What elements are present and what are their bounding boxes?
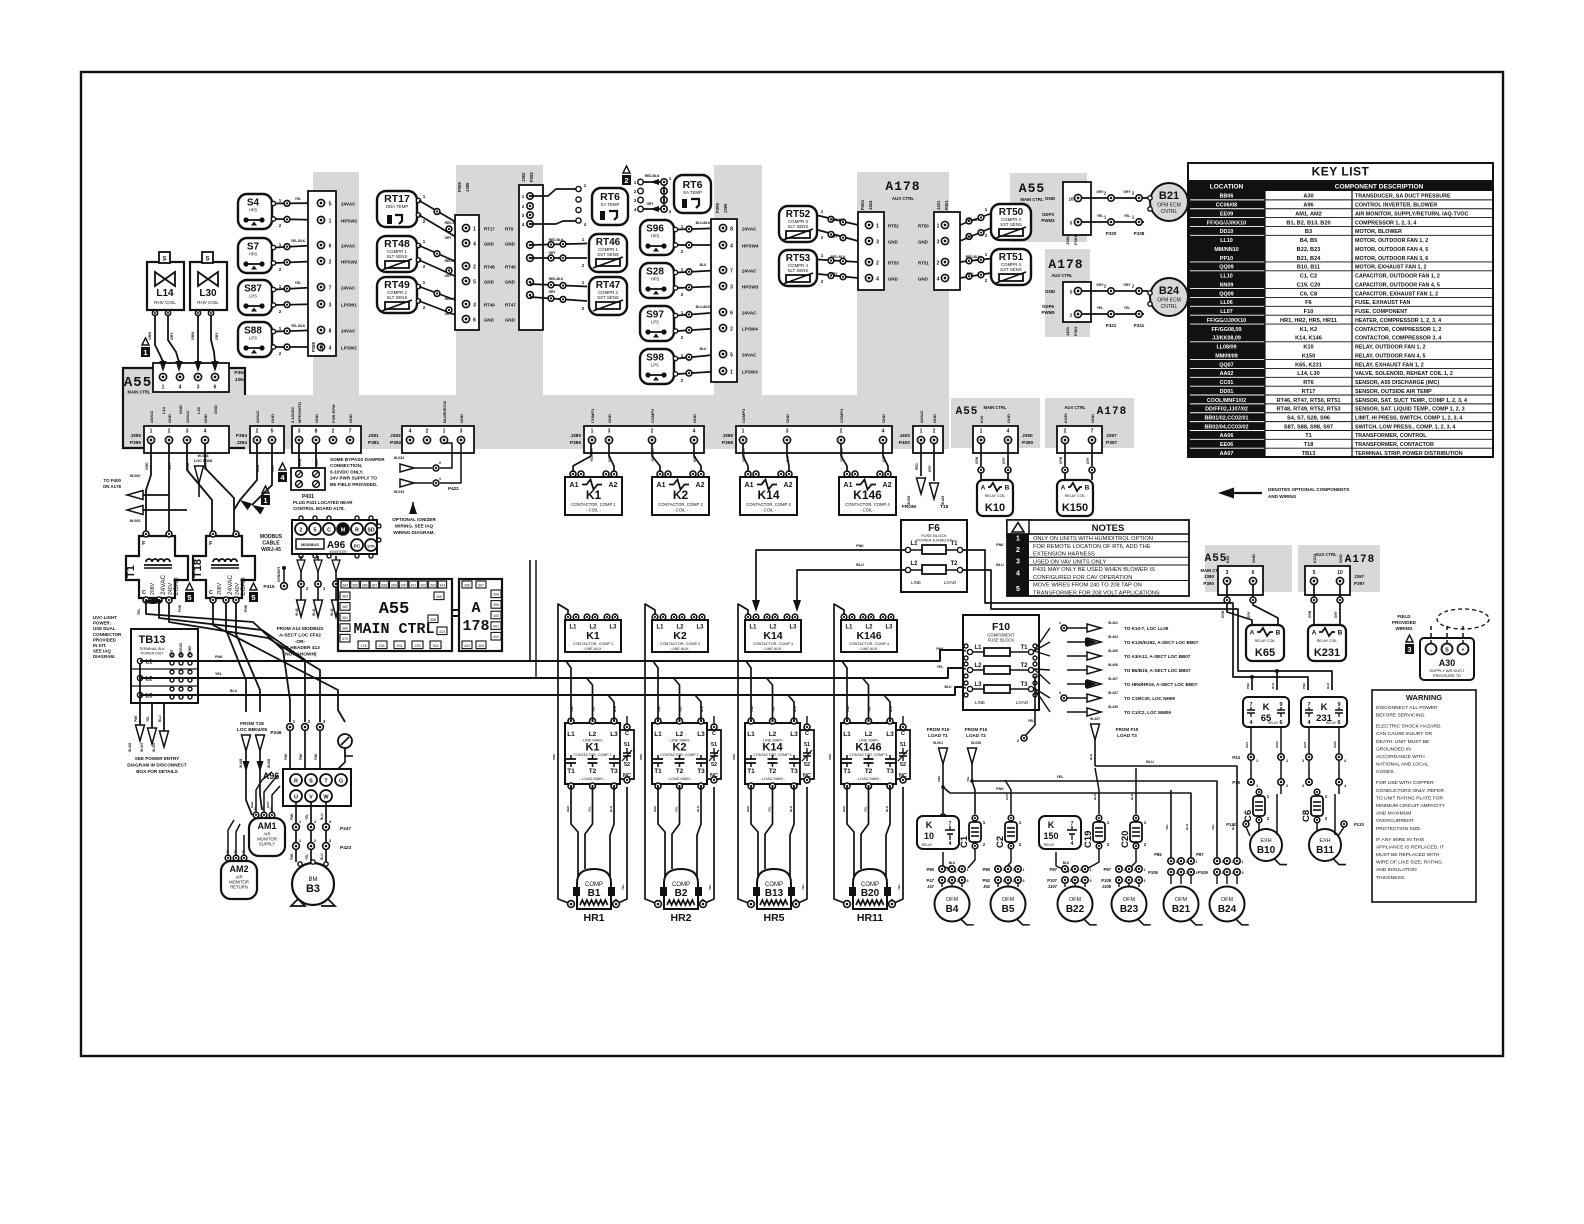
svg-text:(NOT SHOWN): (NOT SHOWN) xyxy=(283,652,316,658)
svg-text:RT46, RT47, RT50, RT51: RT46, RT47, RT50, RT51 xyxy=(1276,398,1340,404)
svg-text:K2: K2 xyxy=(672,742,686,754)
svg-text:PNK: PNK xyxy=(570,705,574,712)
svg-text:A2: A2 xyxy=(883,482,892,489)
svg-text:6: 6 xyxy=(214,385,217,391)
wire xyxy=(573,443,591,472)
svg-text:GND: GND xyxy=(1045,289,1056,294)
svg-text:A96: A96 xyxy=(1303,203,1313,209)
svg-text:383: 383 xyxy=(342,595,348,599)
svg-text:ELECTRIC SHOCK HAZARD.: ELECTRIC SHOCK HAZARD. xyxy=(1376,724,1442,730)
harness band V3 xyxy=(714,165,762,395)
svg-text:C6, C8: C6, C8 xyxy=(1300,291,1317,297)
svg-text:RT51: RT51 xyxy=(918,261,929,266)
svg-text:K: K xyxy=(926,820,933,830)
svg-text:240V: 240V xyxy=(168,582,174,595)
svg-text:W-407: W-407 xyxy=(1108,677,1118,681)
svg-text:M: M xyxy=(341,528,346,534)
svg-text:4: 4 xyxy=(409,429,412,435)
svg-text:AM1, AM2: AM1, AM2 xyxy=(1295,211,1322,217)
svg-text:RELAY: RELAY xyxy=(1044,843,1056,847)
svg-text:SUPPLY: SUPPLY xyxy=(259,842,275,847)
monitor AM2 xyxy=(221,861,257,899)
svg-text:3: 3 xyxy=(186,429,189,435)
svg-text:PNK: PNK xyxy=(732,753,736,760)
svg-text:24VAC: 24VAC xyxy=(341,202,356,207)
svg-text:K14: K14 xyxy=(757,488,779,502)
control board A55 main ctrl xyxy=(338,579,452,651)
svg-text:5: 5 xyxy=(187,593,191,602)
svg-text:235: 235 xyxy=(415,644,421,648)
svg-text:HPSW3: HPSW3 xyxy=(742,285,759,290)
contactor K14 line aux xyxy=(745,620,801,652)
fuse block F10 xyxy=(963,615,1039,710)
wire xyxy=(419,287,466,305)
svg-text:MOTOR, BLOWER: MOTOR, BLOWER xyxy=(1355,229,1402,235)
svg-text:LOAD: LOAD xyxy=(944,580,957,585)
svg-text:PNK: PNK xyxy=(299,753,303,760)
svg-text:GND: GND xyxy=(178,405,183,414)
svg-text:TRANSDUCER, SA DUCT PRESSURE: TRANSDUCER, SA DUCT PRESSURE xyxy=(1355,194,1451,200)
svg-text:L3: L3 xyxy=(696,625,704,631)
svg-text:396: 396 xyxy=(464,583,470,587)
aux side verticals xyxy=(796,787,807,904)
svg-text:5: 5 xyxy=(473,280,476,286)
svg-text:T3: T3 xyxy=(790,768,798,775)
gray block A55 B21 xyxy=(1010,173,1087,242)
svg-text:TRANSFORMER, CONTROL: TRANSFORMER, CONTROL xyxy=(1355,433,1427,439)
svg-text:A1: A1 xyxy=(844,482,853,489)
svg-text:WARNING: WARNING xyxy=(1406,693,1442,702)
wire with arrows RT6 remote xyxy=(643,181,660,183)
svg-text:DD01: DD01 xyxy=(1220,389,1234,395)
svg-text:PC: PC xyxy=(354,544,361,549)
svg-text:W-41: W-41 xyxy=(312,608,316,616)
svg-text:1: 1 xyxy=(591,429,594,435)
svg-text:T2: T2 xyxy=(676,768,684,775)
valve L30 xyxy=(190,262,227,310)
svg-text:A55: A55 xyxy=(956,406,979,418)
svg-text:P422: P422 xyxy=(448,486,459,491)
svg-text:HPSW2: HPSW2 xyxy=(341,260,358,265)
svg-text:POWER EXHAUST: POWER EXHAUST xyxy=(916,538,952,543)
contactor main K146 xyxy=(841,723,896,784)
svg-text:YEL: YEL xyxy=(801,884,805,890)
svg-text:208V: 208V xyxy=(217,582,223,595)
svg-text:- LOAD MAIN -: - LOAD MAIN - xyxy=(856,777,882,781)
svg-text:52: 52 xyxy=(804,762,810,768)
svg-text:CONTACTOR, COMP 1: CONTACTOR, COMP 1 xyxy=(573,753,611,757)
svg-text:YEL: YEL xyxy=(966,776,970,782)
svg-text:RED-BLK: RED-BLK xyxy=(966,218,981,222)
svg-text:2: 2 xyxy=(730,327,733,333)
wire xyxy=(678,228,724,230)
svg-text:TO HR6/HR16, A-SECT LOC BB07: TO HR6/HR16, A-SECT LOC BB07 xyxy=(1124,682,1198,687)
svg-text:OPTIONAL IONIZER: OPTIONAL IONIZER xyxy=(392,517,436,522)
svg-text:CC01: CC01 xyxy=(1220,380,1234,386)
svg-text:P381: P381 xyxy=(1073,235,1078,245)
svg-text:24VAC: 24VAC xyxy=(227,575,234,595)
svg-text:- LINE AUX -: - LINE AUX - xyxy=(762,647,784,651)
svg-text:GND: GND xyxy=(918,277,928,282)
svg-text:OFM ECM: OFM ECM xyxy=(1157,203,1181,209)
wire arrows into P394 xyxy=(162,360,164,368)
svg-text:4: 4 xyxy=(876,277,879,283)
contactor main K1 xyxy=(565,723,620,784)
svg-text:QQ09: QQ09 xyxy=(1219,291,1233,297)
svg-text:BLU: BLU xyxy=(1089,754,1093,760)
svg-text:P321: P321 xyxy=(1106,323,1117,328)
svg-text:THICKNESS.: THICKNESS. xyxy=(1376,875,1405,881)
svg-text:LINE: LINE xyxy=(911,580,921,585)
svg-text:PLUG P431 LOCATED NEAR: PLUG P431 LOCATED NEAR xyxy=(293,500,353,505)
svg-text:FF/GG/JJ/KK10: FF/GG/JJ/KK10 xyxy=(1207,220,1246,226)
svg-text:401: 401 xyxy=(493,624,499,628)
svg-text:K10: K10 xyxy=(1303,345,1313,351)
svg-text:PNK: PNK xyxy=(657,705,661,712)
svg-text:A55 HEADER 413: A55 HEADER 413 xyxy=(280,645,320,651)
svg-text:3: 3 xyxy=(1144,879,1146,883)
svg-text:GRY: GRY xyxy=(1002,456,1006,464)
svg-text:B21, B24: B21, B24 xyxy=(1297,256,1322,262)
svg-text:YEL-BLK: YEL-BLK xyxy=(742,447,746,462)
svg-text:J389: J389 xyxy=(570,433,581,439)
svg-text:RHV COIL: RHV COIL xyxy=(154,300,176,305)
svg-text:J401: J401 xyxy=(936,200,941,210)
svg-text:AA06: AA06 xyxy=(1220,433,1234,439)
svg-text:A2: A2 xyxy=(784,482,793,489)
svg-text:WIRING DIAGRAM.: WIRING DIAGRAM. xyxy=(393,530,435,535)
svg-text:RETURN: RETURN xyxy=(230,885,247,890)
svg-text:GND: GND xyxy=(505,280,515,285)
notes table xyxy=(1007,520,1189,596)
svg-text:LPSW1: LPSW1 xyxy=(341,303,357,308)
svg-text:BLU: BLU xyxy=(696,806,700,812)
svg-text:B21: B21 xyxy=(1159,190,1179,202)
svg-text:GRY: GRY xyxy=(1005,794,1009,800)
TB13 feed triangles xyxy=(139,664,141,725)
svg-text:SEE POWER ENTRY: SEE POWER ENTRY xyxy=(135,756,180,761)
svg-text:3: 3 xyxy=(1023,879,1025,883)
svg-text:CONTROL BOARD A178.: CONTROL BOARD A178. xyxy=(293,506,345,511)
svg-text:MODBUS: MODBUS xyxy=(301,542,319,547)
wire L3 bus xyxy=(140,687,962,695)
svg-text:51: 51 xyxy=(624,742,630,748)
pressure switch S28 xyxy=(640,263,674,298)
svg-text:2: 2 xyxy=(473,265,476,271)
svg-text:W-404: W-404 xyxy=(1108,635,1118,639)
svg-text:QQ07: QQ07 xyxy=(1219,362,1233,368)
svg-text:OFM: OFM xyxy=(1123,897,1136,903)
svg-text:EXH: EXH xyxy=(1260,838,1271,844)
svg-text:404: 404 xyxy=(478,644,484,648)
svg-text:LL10: LL10 xyxy=(1220,238,1233,244)
svg-text:MODBUS: MODBUS xyxy=(179,643,183,657)
svg-text:BLU: BLU xyxy=(230,689,238,693)
svg-text:P394: P394 xyxy=(234,370,246,376)
svg-text:A55: A55 xyxy=(1019,181,1045,196)
svg-text:GND: GND xyxy=(1251,554,1256,563)
connector J399/P399 xyxy=(711,219,737,382)
svg-text:B11: B11 xyxy=(1316,845,1334,856)
svg-text:C19, C20: C19, C20 xyxy=(1297,282,1321,288)
svg-text:J382: J382 xyxy=(521,172,526,182)
svg-text:391: 391 xyxy=(410,583,416,587)
svg-text:P87: P87 xyxy=(1050,867,1058,872)
svg-text:B2: B2 xyxy=(675,888,688,899)
svg-text:SLT SENS: SLT SENS xyxy=(387,295,408,300)
svg-text:OFM: OFM xyxy=(1175,897,1188,903)
svg-text:RELAY COIL: RELAY COIL xyxy=(1065,494,1086,498)
svg-text:1: 1 xyxy=(1196,860,1198,864)
svg-text:GND: GND xyxy=(505,242,515,247)
svg-text:3: 3 xyxy=(1407,645,1411,654)
svg-text:CAPACITOR, OUTDOOR FAN 4, 5: CAPACITOR, OUTDOOR FAN 4, 5 xyxy=(1355,282,1440,288)
svg-text:TB13: TB13 xyxy=(139,634,166,646)
svg-text:RT6: RT6 xyxy=(1303,380,1314,386)
svg-text:8: 8 xyxy=(315,429,318,435)
contactor K146 line aux xyxy=(841,620,897,652)
svg-text:RED: RED xyxy=(256,464,260,472)
harness band V2 xyxy=(456,165,543,395)
svg-text:L1: L1 xyxy=(656,625,664,631)
svg-text:CONTACTOR, COMP 1: CONTACTOR, COMP 1 xyxy=(571,502,616,507)
svg-text:A55: A55 xyxy=(379,600,410,619)
svg-text:PNK: PNK xyxy=(996,787,1004,791)
svg-text:2: 2 xyxy=(329,260,332,266)
svg-text:GND: GND xyxy=(484,318,494,323)
svg-text:J390: J390 xyxy=(1204,574,1215,579)
svg-text:P401: P401 xyxy=(944,200,949,210)
svg-text:GRN: GRN xyxy=(191,332,195,340)
relay K150 coil xyxy=(1057,480,1093,516)
svg-text:DD10: DD10 xyxy=(1220,229,1234,235)
svg-text:BLU: BLU xyxy=(700,706,704,712)
svg-text:4: 4 xyxy=(693,429,696,435)
svg-text:B24: B24 xyxy=(1218,904,1237,915)
svg-text:GRY: GRY xyxy=(1123,190,1131,194)
svg-text:RELAY COIL: RELAY COIL xyxy=(985,494,1006,498)
pressure switch S87 xyxy=(238,280,272,315)
svg-text:394: 394 xyxy=(439,583,445,587)
svg-text:RT17: RT17 xyxy=(1302,389,1316,395)
svg-text:AA02: AA02 xyxy=(1220,371,1234,377)
svg-text:B4: B4 xyxy=(946,904,959,915)
svg-text:T1: T1 xyxy=(125,565,137,578)
svg-text:GRN: GRN xyxy=(975,456,979,464)
svg-text:DEATH. UNIT MUST BE: DEATH. UNIT MUST BE xyxy=(1376,739,1430,745)
wire xyxy=(743,443,748,472)
svg-text:BLU: BLU xyxy=(700,347,707,351)
svg-text:YEL: YEL xyxy=(1124,214,1131,218)
chassis ground xyxy=(338,734,352,748)
svg-text:GND: GND xyxy=(881,414,886,423)
pressure switch S97 xyxy=(640,306,674,341)
svg-text:COMP3: COMP3 xyxy=(741,408,746,423)
svg-text:RED-BLK: RED-BLK xyxy=(831,218,846,222)
svg-text:W-032: W-032 xyxy=(394,456,405,460)
svg-text:IN KIT.: IN KIT. xyxy=(93,643,106,648)
wire F6 line side xyxy=(756,550,905,608)
svg-text:DENOTES OPTIONAL COMPONENTS: DENOTES OPTIONAL COMPONENTS xyxy=(1268,487,1349,492)
svg-text:TERMINAL STRIP, POWER DISTRIBU: TERMINAL STRIP, POWER DISTRIBUTION xyxy=(1355,451,1463,457)
relay contacts K65 xyxy=(1243,697,1289,727)
svg-text:LOC BB04/05: LOC BB04/05 xyxy=(237,727,268,733)
svg-text:R: R xyxy=(294,779,298,785)
svg-text:TO UNIT RATING PLATE FOR: TO UNIT RATING PLATE FOR xyxy=(1376,795,1443,801)
svg-text:BLU: BLU xyxy=(158,715,162,722)
svg-text:CONTACTOR, COMP 2: CONTACTOR, COMP 2 xyxy=(660,642,700,646)
relay K231 coil xyxy=(1308,625,1346,661)
svg-text:RED-BLK: RED-BLK xyxy=(831,255,846,259)
wire J395-1 to T1 xyxy=(146,443,151,533)
motor B4 OFM xyxy=(935,887,970,922)
svg-text:1: 1 xyxy=(1023,868,1025,872)
svg-text:FF/GG08,09: FF/GG08,09 xyxy=(1212,327,1242,333)
wire T2 tap down xyxy=(1026,676,1035,735)
svg-text:MM/NN10: MM/NN10 xyxy=(1214,247,1238,253)
svg-text:T2: T2 xyxy=(950,561,958,567)
sensor RT49 xyxy=(377,277,421,313)
wire xyxy=(276,287,322,290)
svg-text:CONNECTOR: CONNECTOR xyxy=(93,632,122,637)
svg-text:RELAY COIL: RELAY COIL xyxy=(1255,639,1276,643)
svg-text:J394: J394 xyxy=(236,440,247,446)
svg-text:TO C19/C20, LOC NH09: TO C19/C20, LOC NH09 xyxy=(1124,696,1175,701)
svg-text:5: 5 xyxy=(314,528,317,534)
wire xyxy=(678,354,724,359)
svg-text:L1: L1 xyxy=(974,645,982,651)
svg-text:J394: J394 xyxy=(235,377,246,383)
svg-text:HPS: HPS xyxy=(651,234,660,239)
svg-text:YEL: YEL xyxy=(215,672,223,676)
svg-text:- LINE AUX -: - LINE AUX - xyxy=(669,647,691,651)
svg-text:GRY: GRY xyxy=(786,454,790,462)
motor B10 EXH xyxy=(1250,829,1282,861)
wires K65/K231 contacts to P24/P18 xyxy=(1250,728,1252,753)
wire J381 to P431 xyxy=(298,443,300,468)
svg-text:K14: K14 xyxy=(762,742,783,754)
svg-text:MAIN CTRL: MAIN CTRL xyxy=(983,405,1006,410)
svg-text:P320: P320 xyxy=(1106,231,1117,236)
svg-text:HR1, HR2, HR5, HR11: HR1, HR2, HR5, HR11 xyxy=(1280,318,1337,324)
svg-text:1: 1 xyxy=(522,194,525,199)
svg-text:PROVIDED: PROVIDED xyxy=(1392,620,1417,625)
svg-text:WIRING. SEE IAQ: WIRING. SEE IAQ xyxy=(395,524,434,529)
svg-text:- COIL -: - COIL - xyxy=(673,508,688,513)
svg-text:- LOAD MAIN -: - LOAD MAIN - xyxy=(667,777,693,781)
svg-text:BOX FOR DETAILS: BOX FOR DETAILS xyxy=(136,769,178,774)
svg-text:BLU: BLU xyxy=(700,263,707,267)
wires between grids and motors xyxy=(1170,875,1172,884)
svg-text:393: 393 xyxy=(430,583,436,587)
svg-text:4: 4 xyxy=(937,277,940,283)
wire xyxy=(419,201,466,229)
svg-text:L3: L3 xyxy=(885,625,893,631)
wire L2 bus xyxy=(140,668,962,678)
svg-text:GRY: GRY xyxy=(444,312,452,316)
svg-text:FUSE BLOCK: FUSE BLOCK xyxy=(988,638,1015,643)
wire J395-4 xyxy=(205,443,234,533)
svg-text:V: V xyxy=(309,795,313,801)
svg-text:FOR USE WITH COPPER: FOR USE WITH COPPER xyxy=(1376,780,1434,786)
svg-text:PNK: PNK xyxy=(552,753,556,760)
svg-text:PNK: PNK xyxy=(244,604,248,612)
svg-text:OFM: OFM xyxy=(1002,897,1015,903)
svg-text:2: 2 xyxy=(1286,784,1288,788)
svg-text:6: 6 xyxy=(1279,720,1282,726)
svg-text:T1: T1 xyxy=(1305,433,1312,439)
svg-text:YEL-BLK: YEL-BLK xyxy=(291,239,306,243)
marker note 5 T18 xyxy=(250,583,257,590)
svg-text:USE DUAL: USE DUAL xyxy=(93,626,116,631)
svg-text:3: 3 xyxy=(876,240,879,246)
svg-text:W: W xyxy=(323,795,329,801)
svg-text:51: 51 xyxy=(804,742,810,748)
svg-text:381: 381 xyxy=(342,616,348,620)
svg-text:CONNECTION,: CONNECTION, xyxy=(330,463,362,468)
svg-text:B10: B10 xyxy=(1257,845,1276,856)
sensor RT46 xyxy=(589,234,627,272)
contactor main K2 xyxy=(652,723,707,784)
svg-text:P107: P107 xyxy=(1047,878,1057,883)
C tops risers xyxy=(1005,780,1011,814)
svg-text:AM2: AM2 xyxy=(229,864,248,874)
svg-text:J404: J404 xyxy=(868,200,873,210)
svg-text:YEL: YEL xyxy=(868,706,872,712)
relay K10 coil xyxy=(977,480,1013,516)
svg-text:L2: L2 xyxy=(676,731,684,738)
svg-text:GND: GND xyxy=(314,414,319,423)
wire risers from lines xyxy=(842,661,847,721)
svg-text:382: 382 xyxy=(342,605,348,609)
svg-text:ODA TEMP: ODA TEMP xyxy=(386,204,409,209)
svg-text:L14: L14 xyxy=(156,288,174,299)
svg-text:L1: L1 xyxy=(910,541,918,547)
svg-text:FF/GG/JJ/KK10: FF/GG/JJ/KK10 xyxy=(1207,318,1246,324)
svg-text:SD: SD xyxy=(367,528,374,534)
wire A55 to B21 xyxy=(1082,197,1149,199)
connector grid P52 xyxy=(995,866,1001,872)
svg-text:B20: B20 xyxy=(861,888,880,899)
svg-text:MAIN CTRL: MAIN CTRL xyxy=(353,621,434,638)
key list table xyxy=(1188,163,1493,457)
svg-text:RELAY, EXHAUST FAN 1, 2: RELAY, EXHAUST FAN 1, 2 xyxy=(1355,362,1424,368)
svg-text:W/RJ-45: W/RJ-45 xyxy=(261,547,281,553)
svg-text:PNK: PNK xyxy=(846,705,850,712)
svg-text:POWER DIST: POWER DIST xyxy=(141,652,165,656)
svg-text:GRY: GRY xyxy=(168,462,172,470)
svg-text:P394: P394 xyxy=(236,433,248,439)
svg-text:L30: L30 xyxy=(199,288,217,299)
svg-text:CONTACTOR, COMPRESSOR 1, 2: CONTACTOR, COMPRESSOR 1, 2 xyxy=(1355,327,1441,333)
svg-text:TO P400: TO P400 xyxy=(104,478,122,483)
svg-text:1: 1 xyxy=(980,429,983,435)
blower feed verticals xyxy=(529,560,531,661)
svg-text:GRY: GRY xyxy=(693,454,697,462)
svg-text:PNK: PNK xyxy=(178,604,182,612)
svg-text:W-439: W-439 xyxy=(1108,705,1118,709)
svg-text:K14: K14 xyxy=(763,630,782,642)
connector P385/J385 xyxy=(455,215,479,330)
wire xyxy=(276,202,322,205)
svg-text:A-SECT LOC FF02: A-SECT LOC FF02 xyxy=(279,632,321,638)
svg-text:AIR MONITOR, SUPPLY/RETURN, IA: AIR MONITOR, SUPPLY/RETURN, IAQ-TVOC xyxy=(1355,211,1469,217)
svg-text:P86: P86 xyxy=(983,867,991,872)
svg-text:YEL: YEL xyxy=(1097,214,1104,218)
svg-text:L1: L1 xyxy=(843,731,851,738)
svg-text:4: 4 xyxy=(1007,429,1010,435)
svg-text:GRY: GRY xyxy=(1086,456,1090,464)
